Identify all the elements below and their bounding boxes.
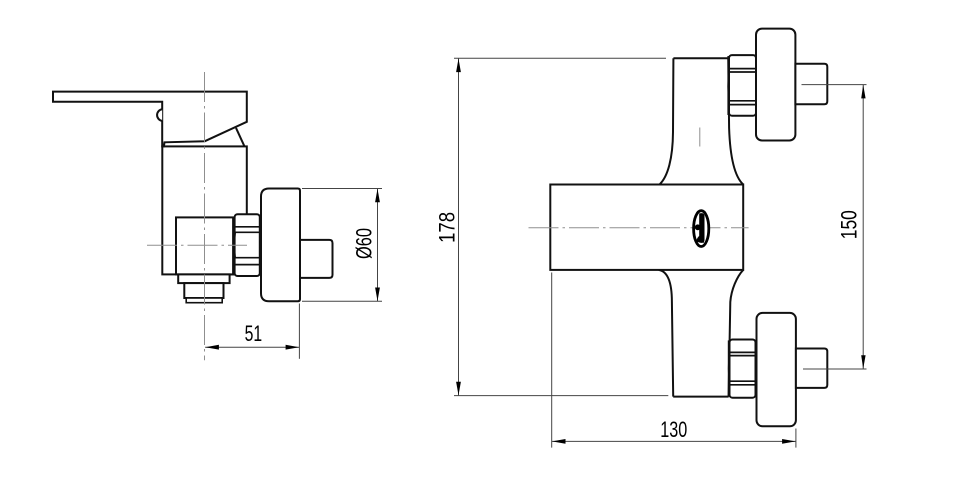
upper pipe stub (front view) (795, 64, 827, 104)
dim 178 arrow down (456, 382, 461, 396)
aerator rim (186, 298, 222, 303)
handle pivot bump (157, 109, 162, 121)
dim Ø60 arrow down (375, 288, 380, 302)
dim 150 line (862, 85, 864, 369)
dim 51 extension right (298, 304, 300, 359)
horizontal centerline (side view) (147, 244, 247, 246)
dim 178 arrow up (456, 59, 461, 73)
short column centerline dash (699, 128, 701, 147)
wall flange (side view) (261, 189, 300, 302)
diverter oval (694, 211, 709, 247)
dim Ø60 extension bottom (302, 300, 382, 302)
dim 178 extension top (454, 57, 666, 59)
main body (front view) (550, 185, 743, 270)
lower nut (front view) (729, 340, 757, 398)
svg-text:51: 51 (245, 321, 263, 346)
outlet block (side view) (176, 217, 233, 274)
handle skirt back edge (236, 128, 245, 146)
dim 150 extension top (802, 84, 867, 86)
lever handle (side view) (53, 92, 247, 147)
dim 130 arrow right (782, 439, 796, 444)
aerator body (184, 283, 223, 298)
supply pipe stub (side view) (300, 240, 333, 278)
dim 150 arrow down (861, 355, 865, 369)
connection nut (side view) (234, 214, 261, 276)
vertical centerline (side view) (204, 72, 206, 360)
upper column (front view) (660, 58, 744, 184)
svg-text:150: 150 (837, 210, 862, 239)
upper column over body repaint (0, 0, 1, 1)
upper wall flange (front view) (756, 29, 795, 141)
dim 51 arrow right (286, 345, 300, 350)
svg-text:Ø60: Ø60 (351, 228, 376, 259)
lower wall flange (front view) (757, 313, 796, 426)
svg-text:130: 130 (660, 417, 687, 442)
horizontal centerline (front view) (529, 227, 749, 229)
dim 130 arrow left (552, 439, 566, 444)
dim 178 line (458, 58, 460, 395)
faucet body (side view) (162, 146, 247, 274)
diverter oval inner mark (699, 213, 704, 243)
dim 130 extension right (795, 429, 797, 448)
outlet step (178, 274, 229, 283)
lower pipe stub (front view) (796, 349, 827, 388)
dim 130 extension left (551, 273, 553, 448)
dim 178 extension bottom (454, 395, 668, 397)
dim Ø60 arrow up (375, 189, 380, 203)
dim 150 extension bottom (803, 368, 867, 370)
dim 51 arrow left (205, 345, 219, 350)
dim 51 line (205, 346, 299, 348)
dim 150 arrow up (861, 85, 865, 99)
dim Ø60 line (377, 189, 379, 302)
svg-text:178: 178 (435, 212, 460, 243)
dim Ø60 extension top (302, 188, 382, 190)
upper nut (front view) (728, 55, 757, 116)
dim 130 line (552, 440, 796, 442)
lower column (front view) (659, 270, 744, 397)
